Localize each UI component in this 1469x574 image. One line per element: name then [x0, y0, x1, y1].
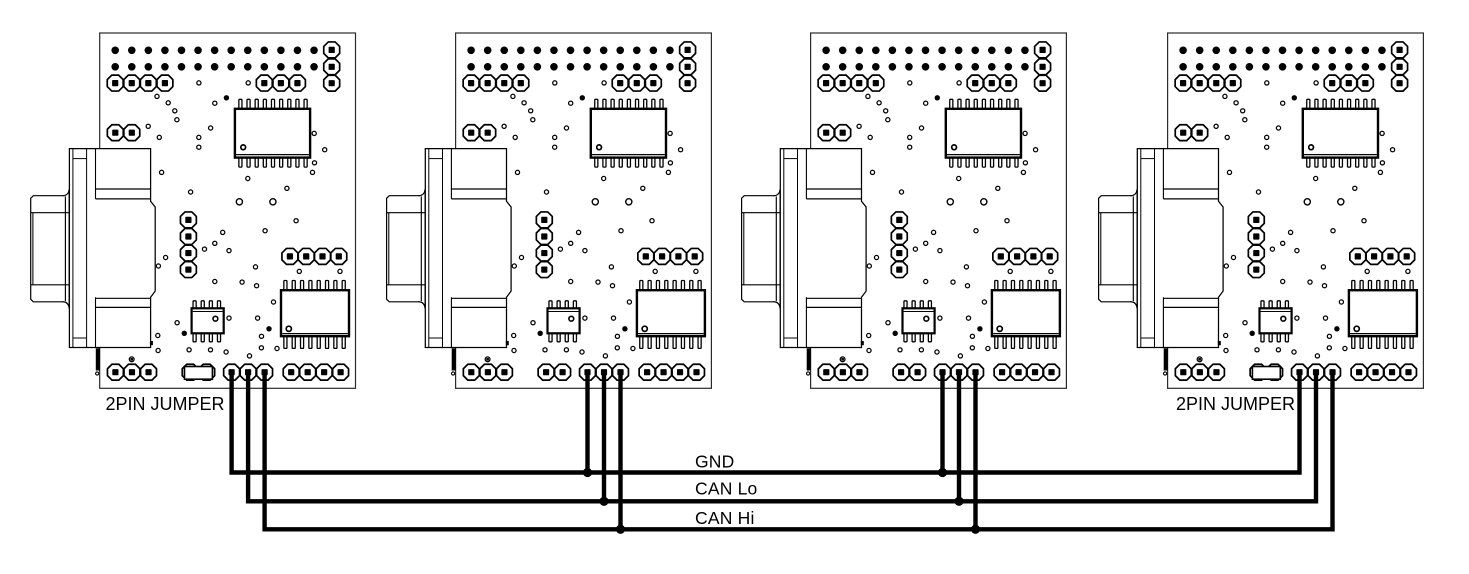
- svg-text:2PIN JUMPER: 2PIN JUMPER: [106, 394, 225, 414]
- svg-text:CAN Lo: CAN Lo: [695, 479, 757, 499]
- svg-text:GND: GND: [695, 452, 735, 472]
- board 3 stub wire to GND: [940, 370, 944, 473]
- svg-text:2PIN JUMPER: 2PIN JUMPER: [1176, 394, 1295, 414]
- 2-pin jumper header pads on board 2: [538, 364, 570, 380]
- junction dot board 2 CAN Hi: [616, 525, 625, 534]
- CAN module board 3: [742, 33, 1067, 388]
- 2-pin jumper plug on board 4: [1250, 364, 1282, 380]
- board 3 stub wire to CAN Lo: [957, 370, 961, 501]
- CAN Hi bus wire: [265, 370, 1333, 529]
- board 3 stub wire to CAN Hi: [973, 370, 977, 529]
- board 2 stub wire to CAN Lo: [602, 370, 606, 501]
- junction dot board 2 CAN Lo: [599, 497, 608, 506]
- GND bus wire: [232, 370, 1300, 473]
- board 2 stub wire to CAN Hi: [618, 370, 622, 529]
- junction dot board 3 GND: [938, 468, 947, 477]
- junction dot board 2 GND: [583, 468, 592, 477]
- CAN module board 4: [1099, 33, 1424, 388]
- svg-text:CAN Hi: CAN Hi: [695, 508, 755, 528]
- CAN module board 1: [31, 33, 356, 388]
- CAN Lo bus wire: [248, 370, 1316, 501]
- junction dot board 3 CAN Hi: [971, 525, 980, 534]
- board 2 stub wire to GND: [585, 370, 589, 473]
- junction dot board 3 CAN Lo: [954, 497, 963, 506]
- 2-pin jumper header pads on board 3: [893, 364, 925, 380]
- CAN module board 2: [387, 33, 712, 388]
- 2-pin jumper plug on board 1: [182, 364, 214, 380]
